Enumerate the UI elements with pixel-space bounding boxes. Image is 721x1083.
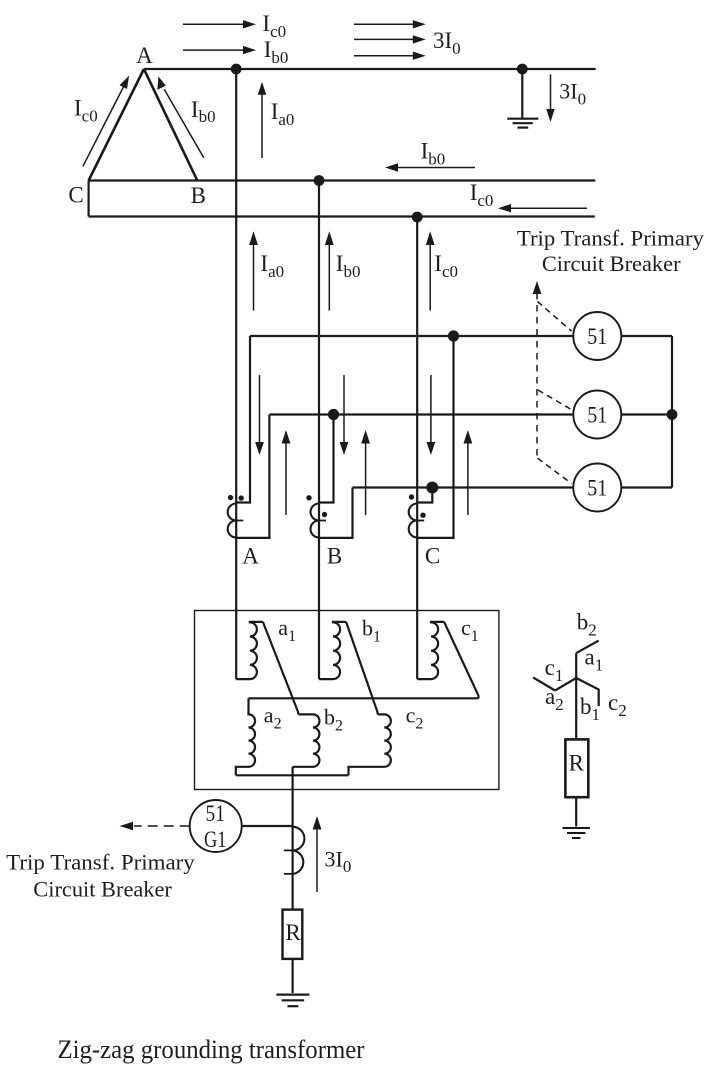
node CT C return on relay line 1 [448, 330, 459, 341]
arrow Ic0 left flow on C bus [498, 204, 587, 212]
arrow 3I0 down into ground [546, 74, 554, 122]
arrow Ia0 up mid [249, 231, 258, 310]
svg-text:Ia0: Ia0 [271, 99, 295, 129]
node on relay right vertical [667, 409, 678, 420]
winding a1 [236, 622, 263, 679]
svg-text:b2: b2 [577, 610, 597, 640]
arrow down CT A [255, 375, 264, 455]
wire relay right common vertical [671, 336, 673, 488]
svg-text:Ib0: Ib0 [191, 97, 216, 126]
arrow Ic0 along delta side C-A [83, 76, 129, 167]
resistor R legend [565, 739, 588, 797]
svg-text:Ic0: Ic0 [434, 251, 458, 281]
CT B middle tick [319, 520, 326, 522]
wire left vertical joining B and C buses [87, 181, 89, 217]
legend phasor c1 segment [533, 677, 555, 690]
relay circle 51 middle (U2) [573, 391, 621, 439]
svg-text:A: A [242, 544, 259, 569]
svg-text:a1: a1 [278, 615, 296, 645]
node ground tap on top bus [517, 64, 528, 75]
svg-text:B: B [191, 183, 206, 208]
delta winding side B-A [144, 69, 197, 181]
bus phase A (top horizontal line) [144, 68, 596, 70]
svg-text:Circuit Breaker: Circuit Breaker [542, 251, 681, 276]
svg-text:c1: c1 [461, 615, 479, 645]
wire phase A vertical [235, 69, 237, 679]
arrow 3I0 group arrow 1 [354, 20, 426, 28]
svg-text:B: B [327, 544, 342, 569]
wire resistor to ground [292, 959, 294, 993]
arrow Ib0 left flow on B bus [385, 163, 475, 171]
svg-text:c2: c2 [608, 690, 627, 720]
wire horizontal c1 to a2 [249, 697, 479, 699]
legend phasor b1 segment down to resistor [575, 678, 577, 739]
legend phasor a2 segment [555, 678, 576, 691]
svg-text:Ia0: Ia0 [260, 251, 284, 281]
trip dashed diagonal to relay 1 [538, 302, 572, 332]
wire phase B vertical [318, 181, 320, 680]
trip dashed diagonal to relay 2 [538, 390, 572, 410]
svg-text:Circuit Breaker: Circuit Breaker [33, 877, 172, 902]
wire neutral vertical [292, 767, 294, 910]
CT B secondary right wire [319, 488, 353, 538]
ground symbol top right [507, 119, 538, 128]
CT A middle tick [236, 520, 243, 522]
bus phase C (bottom horizontal line) [89, 215, 595, 217]
svg-text:51: 51 [587, 324, 607, 349]
arrow down CT B [340, 375, 349, 455]
CT C polarity dots [409, 494, 414, 499]
resistor R main [283, 910, 303, 959]
CT C winding arcs [409, 504, 418, 538]
wire legend resistor to ground [575, 797, 577, 826]
svg-text:G1: G1 [204, 827, 227, 852]
ground symbol legend [563, 828, 591, 838]
svg-text:3I0: 3I0 [325, 846, 352, 876]
svg-text:3I0: 3I0 [559, 79, 586, 109]
svg-text:Ic0: Ic0 [470, 180, 494, 210]
node CT B lead on relay line 2 [328, 409, 339, 420]
node phase C tap on C bus [412, 212, 423, 223]
winding a2 [236, 698, 255, 775]
CT B polarity dots [306, 495, 311, 500]
arrow up CT B [361, 430, 370, 515]
svg-text:Trip Transf. Primary: Trip Transf. Primary [517, 226, 705, 251]
CT C secondary left wire [417, 488, 432, 503]
svg-text:c2: c2 [406, 703, 424, 733]
svg-text:a2: a2 [264, 703, 282, 733]
relay circle 51 bottom (U3) [573, 464, 621, 512]
wire relay line 1 left [250, 335, 573, 337]
wire phase C vertical [416, 217, 418, 680]
CT B secondary left wire [319, 415, 334, 503]
wire 51G1 to neutral [242, 825, 293, 827]
node CT C lead on relay line 3 [426, 482, 438, 494]
svg-text:b2: b2 [324, 705, 343, 735]
trip dashed arrow left of 51G1 [120, 822, 190, 830]
node phase B tap on B bus [314, 175, 325, 186]
svg-text:A: A [136, 43, 153, 68]
legend phasor c2 segment [576, 678, 599, 706]
arrow Ib0 along delta side B-A [157, 76, 204, 157]
arrow down CT C [427, 375, 436, 455]
CT C secondary right wire [417, 336, 453, 538]
CT B winding arcs [311, 504, 320, 538]
trip dashed vertical with arrow [533, 281, 542, 458]
wire relay line 1 right [621, 335, 672, 337]
svg-text:Ib0: Ib0 [336, 251, 361, 281]
svg-text:b1: b1 [362, 616, 381, 646]
svg-text:b1: b1 [580, 694, 600, 724]
CT A polarity dots [228, 495, 233, 500]
svg-text:Zig-zag grounding transformer: Zig-zag grounding transformer [58, 1035, 365, 1064]
CT A secondary right wire [236, 415, 269, 538]
svg-text:C: C [68, 183, 83, 208]
wire diagonal b1 to c2 [346, 622, 378, 715]
trip dashed diagonal to relay 3 [538, 458, 572, 483]
svg-text:R: R [285, 920, 301, 945]
arrow Ib0 up mid [325, 231, 334, 310]
legend phasor b2 segment [576, 641, 599, 654]
svg-text:Ib0: Ib0 [264, 37, 289, 67]
bus phase B (middle horizontal line) [89, 179, 596, 181]
svg-text:c1: c1 [545, 655, 564, 685]
legend phasor a1 segment [575, 653, 577, 678]
svg-text:C: C [425, 544, 440, 569]
svg-text:51: 51 [587, 403, 607, 428]
svg-text:Ib0: Ib0 [421, 139, 446, 169]
arrow Ia0 up beside phase A top [258, 82, 266, 158]
relay circle 51 top (U1) [573, 312, 621, 360]
svg-text:a1: a1 [585, 645, 604, 675]
svg-text:Trip Transf. Primary: Trip Transf. Primary [6, 849, 195, 874]
CT A winding arcs [228, 504, 237, 538]
svg-text:3I0: 3I0 [433, 28, 461, 58]
CT ground sensor arcs [293, 827, 305, 874]
zigzag transformer box [195, 611, 499, 790]
winding b1 [319, 622, 346, 679]
svg-text:a2: a2 [545, 684, 564, 714]
arrow up CT C [464, 430, 473, 515]
arrow Ib0 top flow arrow [183, 46, 256, 54]
wire relay line 2 left [269, 413, 573, 415]
svg-text:51: 51 [587, 476, 607, 501]
arrow 3I0 group arrow 2 [354, 35, 426, 43]
arrow Ic0 top flow arrow [183, 20, 256, 28]
CT C middle tick [417, 520, 424, 522]
wire relay line 2 right [621, 413, 672, 415]
wire neutral foot bus [236, 774, 349, 776]
winding b2 [293, 714, 320, 766]
wire diagonal c1 down [444, 622, 479, 698]
svg-text:R: R [569, 751, 585, 776]
arrow 3I0 group arrow 3 [354, 52, 426, 60]
ground symbol bottom [276, 995, 309, 1007]
CT A secondary left wire [236, 336, 250, 503]
delta winding side C-A [89, 69, 144, 181]
wire relay line 3 left [353, 486, 574, 488]
wire relay line 3 right [621, 486, 672, 488]
winding c2 [349, 714, 391, 775]
svg-text:51: 51 [205, 801, 225, 826]
arrow Ic0 up mid [426, 231, 435, 310]
CT ground ticks [284, 849, 293, 851]
wire ground tap vertical [521, 69, 523, 118]
wire diagonal a1 to b2 [263, 622, 299, 715]
node phase A tap on top bus [231, 64, 242, 75]
arrow 3I0 up beside neutral CT [313, 816, 322, 892]
relay circle 51 G1 [190, 800, 242, 852]
arrow up CT A [282, 430, 291, 515]
winding c1 [417, 622, 444, 679]
svg-text:Ic0: Ic0 [74, 96, 98, 126]
